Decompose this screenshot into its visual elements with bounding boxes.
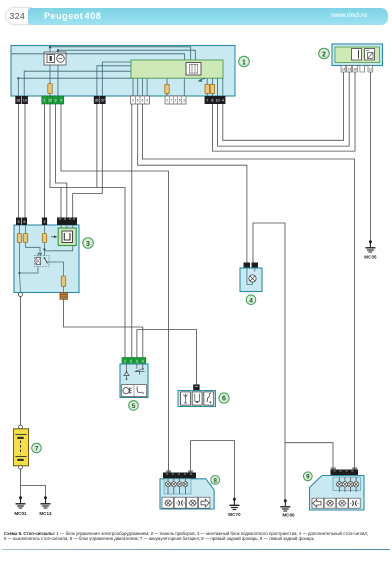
svg-text:5: 5 bbox=[137, 99, 139, 103]
caption bbox=[4, 531, 388, 542]
wire U1-A pin18 to U3 pin5 bbox=[18, 104, 20, 218]
wire fuse F7 down to relay K2 bbox=[44, 243, 46, 256]
battery G1 terminal top bbox=[19, 425, 23, 429]
icon lamp in E8 cell3 bbox=[188, 500, 197, 506]
svg-text:1: 1 bbox=[44, 99, 46, 103]
battery G1 terminal bottom bbox=[19, 465, 23, 469]
svg-text:МС13: МС13 bbox=[39, 511, 52, 516]
fuse F6 in U3 bbox=[23, 225, 27, 243]
svg-text:9: 9 bbox=[141, 99, 143, 103]
wide connector on top of U3 bbox=[57, 218, 77, 226]
wire fuse feed from relay K1 bbox=[50, 65, 58, 96]
wires from green sub-module down to connector D bbox=[133, 78, 147, 96]
icon lamp in E9 cell3 bbox=[338, 500, 347, 506]
wire U2 pin12 to ground MC35 bbox=[369, 72, 371, 242]
svg-text:2: 2 bbox=[175, 99, 177, 103]
svg-text:МС01: МС01 bbox=[14, 511, 27, 516]
wire fuse F6 to relay K2 bbox=[26, 243, 41, 256]
ground MC13 bbox=[39, 496, 52, 516]
wire U1-F pin8 to U2 pin38 bbox=[212, 72, 355, 151]
pedal icon box in S1 bbox=[121, 385, 146, 397]
block U3 underhood fuse box body bbox=[14, 225, 79, 293]
label circled 8 bbox=[211, 476, 220, 485]
wire internal bus 3 of U1 bbox=[12, 54, 185, 60]
connector pins of U2 bbox=[341, 66, 373, 73]
header cyan bar bbox=[28, 8, 388, 25]
icon contacts in E8 cell2 bbox=[176, 501, 184, 506]
sub-module green block inside U1 bbox=[131, 60, 223, 78]
orange connector at U3 bottom bbox=[60, 293, 67, 300]
svg-text:1: 1 bbox=[124, 359, 126, 363]
lamp bulbs in E8 bbox=[166, 479, 188, 494]
fuse F1 in U1 bbox=[48, 84, 52, 94]
wire relay K2 contact to fuse F8 bbox=[45, 246, 73, 277]
svg-text:12: 12 bbox=[369, 68, 373, 72]
node junction dots on U1 buses bbox=[17, 46, 59, 80]
wire U1-B pin3 to U3 wide connector bbox=[56, 104, 67, 218]
wire U1-D pin5 to E4 additional stop signal bbox=[138, 104, 247, 263]
label circled 9 bbox=[303, 472, 312, 481]
block S1 stop light switch body bbox=[120, 364, 148, 398]
svg-text:2: 2 bbox=[166, 99, 168, 103]
wire U3 orange connector to S1 pin4 bbox=[64, 299, 143, 358]
block E9 left tail lamp connector bbox=[331, 467, 359, 475]
function icon cells in E8 bbox=[162, 497, 210, 508]
wire wide connector stubs in U3 bbox=[61, 225, 76, 246]
svg-text:2: 2 bbox=[322, 51, 326, 58]
svg-text:МС60: МС60 bbox=[282, 513, 295, 518]
wire internal bus 1 of U1 bbox=[50, 47, 191, 60]
lamp cluster holder in E9 bbox=[333, 477, 361, 491]
svg-text:19: 19 bbox=[23, 99, 27, 103]
svg-text:4: 4 bbox=[249, 297, 253, 304]
label circled 5 bbox=[129, 401, 139, 411]
relay module box in U3 bbox=[58, 228, 76, 246]
label circled 7 bbox=[32, 443, 42, 453]
ground MC01 bbox=[14, 496, 27, 516]
connector C on U1 (2 pins) bbox=[94, 96, 106, 104]
wire U1-F pin4 to U2 pin14 bbox=[223, 72, 344, 140]
block U6 engine control unit connector bbox=[193, 384, 199, 390]
wire S1 pin3 to U6 engine control unit bbox=[137, 330, 197, 385]
fuse F8 in U3 bbox=[61, 276, 65, 293]
wire U1-D pin2 to S1 pin2 bbox=[131, 104, 133, 358]
wires and fuses F3 F4 to connector F bbox=[205, 78, 223, 96]
actuation arrows above relay K2 coil bbox=[37, 252, 42, 256]
icon lamp in E8 cell1 bbox=[164, 500, 173, 506]
svg-text:2: 2 bbox=[130, 359, 132, 363]
block U6 engine control unit body bbox=[178, 391, 216, 407]
wire U3 internal fuse F5 to bottom pin bbox=[20, 243, 21, 293]
svg-text:14: 14 bbox=[342, 68, 346, 72]
battery G1 body bbox=[14, 429, 29, 466]
connector B green on U1 (pins 1 10 3 4) bbox=[42, 96, 64, 104]
wire U3 bottom pin to battery G1 bbox=[20, 297, 22, 426]
indicator icon 1 in U2 bbox=[352, 49, 362, 61]
block E9 left tail lamp body bbox=[310, 476, 365, 511]
wire U1-F pin10 to U2 pin13 bbox=[218, 72, 350, 146]
node dot in U3 bbox=[18, 272, 20, 274]
wire U1 pin C2 riser bbox=[102, 62, 131, 96]
connector D white on U1 bbox=[131, 96, 150, 104]
wire net U1-B pin10 / U3 wide pin / U1-C pin35 / S1 pin1 bbox=[50, 104, 125, 358]
svg-text:3: 3 bbox=[55, 99, 57, 103]
block E4 additional stop signal body bbox=[240, 268, 262, 292]
svg-text:7: 7 bbox=[206, 99, 208, 103]
switch contact symbol a in S1 bbox=[123, 364, 129, 380]
svg-text:7: 7 bbox=[170, 99, 172, 103]
svg-text:5: 5 bbox=[18, 220, 20, 224]
sensor icon in U6 bbox=[206, 393, 211, 403]
function icon cells in E9 bbox=[312, 498, 360, 508]
wire U1-C pin37 to U3 wide connector bbox=[73, 104, 103, 218]
svg-text:3: 3 bbox=[183, 99, 185, 103]
svg-text:35: 35 bbox=[95, 99, 99, 103]
wire U1-B pin1 to U3 pin3 bbox=[44, 104, 46, 218]
svg-text:4: 4 bbox=[60, 99, 62, 103]
svg-text:1: 1 bbox=[242, 59, 246, 66]
svg-text:37: 37 bbox=[101, 99, 105, 103]
node dot above relay K2 bbox=[43, 248, 45, 250]
block E8 right tail lamp connector bbox=[163, 470, 196, 479]
wire net E4 to E9 and ground MC60 bbox=[253, 223, 333, 501]
block U2 instrument panel body bbox=[332, 44, 383, 66]
arrow to relay module bbox=[51, 235, 57, 238]
fuse F7 in U3 bbox=[42, 225, 46, 243]
svg-text:5: 5 bbox=[132, 403, 136, 410]
footer rule bbox=[2, 549, 390, 551]
ground MC35 bbox=[364, 240, 377, 259]
label circled 6 bbox=[219, 393, 229, 403]
wire and fuse F2 to connector E bbox=[165, 78, 185, 96]
svg-text:8: 8 bbox=[211, 99, 213, 103]
wire internal bus 4 of U1 bbox=[18, 71, 131, 96]
relay K2 in U3 with dashed frame bbox=[35, 256, 50, 267]
icon arrow in E8 cell4 bbox=[201, 499, 209, 507]
svg-text:3: 3 bbox=[136, 359, 138, 363]
svg-text:4: 4 bbox=[142, 359, 144, 363]
block E4 additional stop signal pins bbox=[244, 263, 259, 269]
svg-text:9: 9 bbox=[306, 474, 310, 481]
block S1 stop light switch connector strip bbox=[122, 358, 146, 365]
svg-text:10: 10 bbox=[216, 99, 220, 103]
injector icon in U6 bbox=[183, 394, 187, 404]
wire battery G1 to grounds MC01 MC13 bbox=[21, 469, 46, 497]
indicator icon 2 in U2 bbox=[365, 49, 375, 61]
svg-text:6: 6 bbox=[222, 396, 226, 403]
lamp cluster holder in E8 bbox=[164, 479, 191, 494]
svg-text:МС35: МС35 bbox=[364, 255, 377, 260]
wire relay K1 top stubs to internal buses bbox=[50, 47, 58, 53]
header url bbox=[331, 13, 367, 19]
lamp icon in U6 bbox=[195, 394, 200, 404]
wire relay coil to node bbox=[20, 267, 39, 274]
ground MC70 bbox=[228, 498, 241, 517]
svg-text:3: 3 bbox=[146, 99, 148, 103]
header title bbox=[44, 11, 101, 21]
connector A on U1 (2 pins) bbox=[15, 96, 28, 104]
connector E white on U1 bbox=[165, 96, 186, 104]
lamp bulbs in E9 bbox=[337, 477, 359, 492]
icon contacts in E9 cell4 bbox=[350, 501, 358, 506]
label circled 1 bbox=[239, 56, 250, 67]
lamp L1 in E4 bbox=[249, 275, 256, 282]
svg-text:3: 3 bbox=[86, 241, 90, 248]
fuse F5 in U3 bbox=[17, 225, 21, 243]
svg-text:7: 7 bbox=[35, 446, 39, 453]
wire U1-D pin9 to E9 left lamp bbox=[142, 104, 354, 470]
connector F on U1 (4 pins) bbox=[205, 96, 226, 104]
header page number tab bbox=[5, 7, 37, 25]
wire U1-B pin4 to E8 right lamp bbox=[61, 104, 169, 473]
label circled 4 bbox=[246, 295, 256, 305]
svg-text:2: 2 bbox=[132, 99, 134, 103]
label circled 2 bbox=[319, 48, 330, 59]
connector pins on top of U3 bbox=[16, 218, 47, 226]
svg-text:10: 10 bbox=[48, 99, 52, 103]
block E8 right tail lamp body bbox=[160, 479, 214, 509]
svg-text:4: 4 bbox=[222, 99, 224, 103]
ground MC60 bbox=[280, 499, 295, 517]
wire U1-A pin19 to U3 pin6 bbox=[24, 104, 26, 218]
relay K1 inside U1 bbox=[44, 52, 66, 65]
switch contact symbol b in S1 bbox=[135, 364, 145, 375]
svg-text:13: 13 bbox=[347, 68, 351, 72]
svg-text:8: 8 bbox=[213, 477, 217, 484]
svg-text:3: 3 bbox=[44, 220, 46, 224]
wire internal bus 2 of U1 bbox=[58, 50, 195, 60]
actuation arrow inside U1 bbox=[197, 78, 205, 82]
svg-text:6: 6 bbox=[23, 220, 25, 224]
bottom terminal pin of U3 bbox=[19, 293, 23, 297]
label circled 3 bbox=[83, 238, 94, 249]
icon lamp in E9 cell2 bbox=[326, 500, 335, 506]
block U1 electrical equipment control unit body bbox=[11, 46, 235, 97]
svg-text:5: 5 bbox=[179, 99, 181, 103]
svg-text:38: 38 bbox=[353, 68, 357, 72]
wire U1 pin C1 riser bbox=[97, 66, 132, 96]
svg-text:МС70: МС70 bbox=[228, 512, 241, 517]
icon arrow in E9 cell1 bbox=[313, 499, 321, 507]
svg-text:18: 18 bbox=[16, 99, 20, 103]
wire E8 to ground MC70 bbox=[191, 441, 235, 500]
